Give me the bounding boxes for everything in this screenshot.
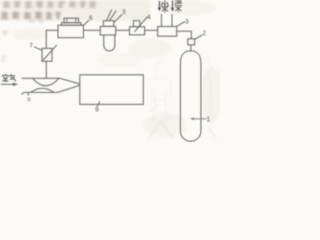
svg-text:8: 8 bbox=[27, 98, 30, 104]
svg-text:1: 1 bbox=[206, 114, 210, 123]
svg-text:3: 3 bbox=[185, 18, 189, 25]
svg-text:2: 2 bbox=[202, 30, 206, 37]
svg-text:9: 9 bbox=[95, 106, 99, 113]
svg-text:6: 6 bbox=[89, 15, 93, 22]
svg-text:7: 7 bbox=[29, 42, 33, 49]
svg-text:4: 4 bbox=[147, 14, 151, 21]
